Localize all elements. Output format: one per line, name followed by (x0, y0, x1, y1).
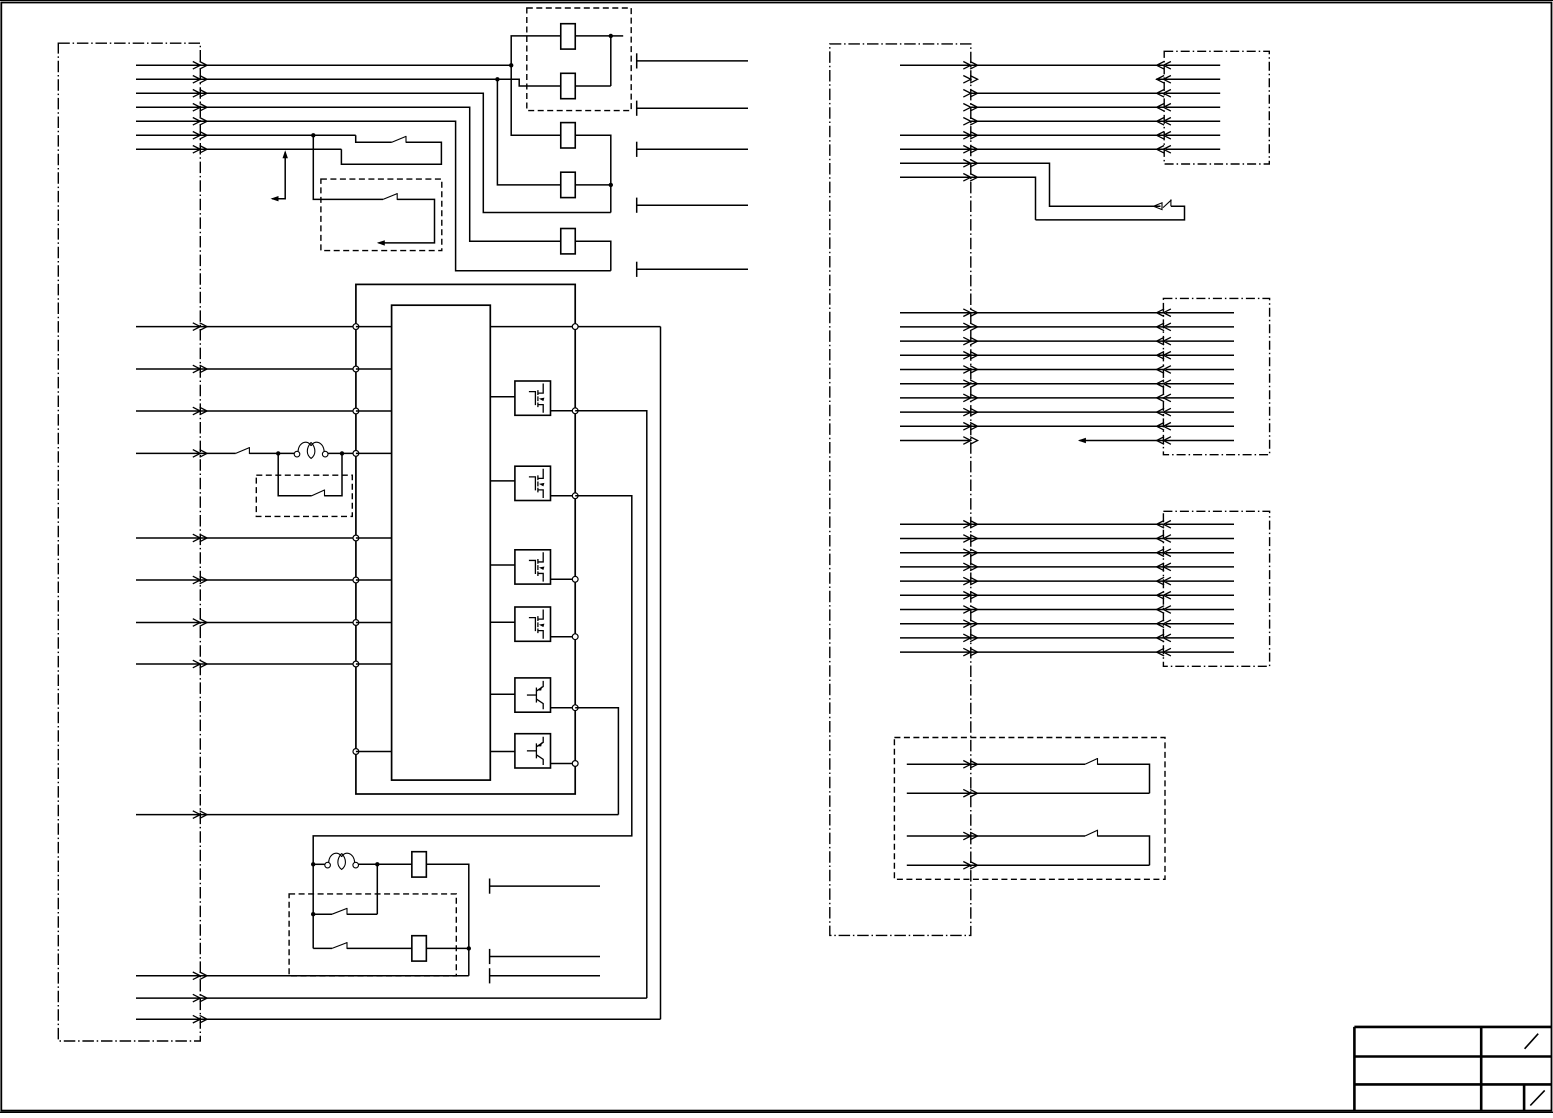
wire U1 to mosfet Q1 (490, 396, 515, 398)
switch S6 (332, 943, 347, 949)
wire G3-3 stub (1166, 552, 1235, 554)
wire top output down to W13 (660, 327, 662, 1020)
wire U1 to mosfet Q3 (490, 564, 515, 566)
component box P2 (dash-dot) (1163, 298, 1269, 454)
arrow G2-5 in (1157, 366, 1171, 374)
arrow G2-2 out (963, 323, 977, 331)
arrow G3-3 in (1157, 549, 1171, 557)
connector X1 (left, dash-dot box) (58, 43, 200, 1041)
wire G2-9 left (900, 425, 971, 427)
pin circle mosfet Q1 output (572, 408, 578, 414)
arrow G1-1 in (1157, 62, 1171, 70)
wire relay vertical (312, 864, 314, 948)
pin circle input 4 (353, 451, 359, 457)
wire module input 8 (136, 663, 356, 665)
wire G2-7 left (900, 397, 971, 399)
wire W4 (136, 107, 561, 241)
arrow G1-8 out (963, 160, 977, 168)
wire S4 bypass left (278, 453, 312, 495)
arrow G3-2 out (963, 535, 977, 543)
wire G2-1 right (971, 312, 1164, 314)
wire W9 (136, 814, 618, 816)
wire G4-4 right (971, 864, 1150, 866)
arrow G1-4 in (1157, 104, 1171, 112)
wire G3-3 right (971, 552, 1164, 554)
wire G3-9 left (900, 637, 971, 639)
arrow G3-5 out (963, 577, 977, 585)
fuse F4 (561, 172, 576, 197)
wire W2 (136, 78, 497, 80)
wire G2-5 stub (1166, 369, 1235, 371)
wire G1-4 stub (1166, 106, 1221, 108)
pin circle input 8 (353, 661, 359, 667)
node F3/F4 output junction (609, 183, 613, 187)
arrow G1-3 out (963, 90, 977, 98)
wire S3 to coil (249, 452, 294, 454)
arrow G1-4 out (963, 104, 977, 112)
arrow W2 (193, 76, 207, 84)
wire G1-8 loop (971, 163, 1161, 206)
wire G3-7 right (971, 609, 1164, 611)
wire G4-1 left (907, 763, 971, 765)
arrowhead W7 tap (271, 196, 279, 201)
wire W5 (136, 121, 611, 270)
wire G3-9 right (971, 637, 1164, 639)
wire G2-2 left (900, 326, 971, 328)
arrow G3-4 in (1157, 563, 1171, 571)
node coil output (375, 862, 379, 866)
sheet bottom edge (0, 1111, 1553, 1113)
wire G3-6 stub (1166, 594, 1235, 596)
switch S1 (392, 136, 406, 142)
arrow G2-3 in (1157, 337, 1171, 345)
wire module input 1 (136, 326, 356, 328)
fuse F5 (561, 229, 576, 254)
wire G2-9 stub (1166, 425, 1235, 427)
wire G2-8 left (900, 411, 971, 413)
arrow G1-7 out (963, 146, 977, 154)
pin circle input 7 (353, 620, 359, 626)
wire G3-6 right (971, 594, 1164, 596)
arrow input 5 (193, 534, 207, 542)
sheet top edge (0, 0, 1553, 2)
arrow G4-3 (963, 832, 977, 840)
arrow input 3 (193, 407, 207, 415)
wire G1-7 right (971, 148, 1164, 150)
wire G1-6 stub (1166, 134, 1221, 136)
arrow input 8 (193, 660, 207, 668)
wire S4 bypass right (325, 453, 343, 495)
wire G1-1 right (971, 64, 1164, 66)
wire W10 (136, 975, 469, 977)
transistor Q6 (515, 734, 551, 768)
wire G2-1 stub (1166, 312, 1235, 314)
wire G3-4 left (900, 566, 971, 568)
pin circle top output (572, 324, 578, 330)
wire S6 left lead (313, 947, 332, 949)
pin circle input 1 (353, 324, 359, 330)
wire G1-9 loop (971, 177, 1036, 220)
wire G1-8 left (900, 162, 971, 164)
wire G1-2 stub (1156, 78, 1220, 80)
mosfet Q2 (515, 466, 551, 500)
wire G3-1 right (971, 523, 1164, 525)
wire G3-7 stub (1166, 609, 1235, 611)
arrow input 4 (193, 450, 207, 458)
fuse F1 (561, 24, 576, 49)
wire mosfet Q1 output (551, 410, 576, 412)
arrow G1-5 out (963, 118, 977, 126)
wire module input 3 (136, 410, 356, 412)
component box P3 (dash-dot) (1163, 511, 1269, 666)
wire G1-6 left (900, 134, 971, 136)
wire S5 right lead (347, 913, 377, 915)
wire G1-1 left (900, 64, 971, 66)
wire W7 tap down (272, 152, 285, 199)
wire pin 4 to U1 (356, 452, 392, 454)
arrowhead G2-10 (1078, 438, 1086, 443)
arrow W1 (193, 62, 207, 70)
arrow G1-6 out (963, 132, 977, 140)
title block slash 2 (1530, 1090, 1544, 1105)
arrow G3-7 out (963, 606, 977, 614)
wire U1 to mosfet Q4 (490, 621, 515, 623)
terminal X10 (636, 53, 638, 68)
node W2 junction (495, 77, 499, 81)
wire G3-8 stub (1166, 623, 1235, 625)
arrow W3 (193, 90, 207, 98)
title block (1354, 1027, 1551, 1111)
wire Q5 output down to W10 (575, 708, 618, 815)
wire G2-1 left (900, 312, 971, 314)
wire S7 contact (1036, 206, 1185, 220)
wire coil right lead (359, 863, 412, 865)
arrow G1-9 out (963, 174, 977, 182)
wire G3-1 stub (1166, 523, 1235, 525)
arrow G1-5 in (1157, 118, 1171, 126)
wire Q2 output down to relay feed (313, 496, 632, 865)
wire module input 6 (136, 579, 356, 581)
wire G1-4 right (971, 106, 1164, 108)
arrow G1-2 in (1157, 76, 1171, 84)
wire G2-8 right (971, 411, 1164, 413)
node S5 left (311, 912, 315, 916)
arrow G4-2 (963, 789, 977, 797)
wire S5 tap (376, 864, 378, 914)
transistor Q5 (515, 678, 551, 712)
pin circle mosfet Q2 output (572, 493, 578, 499)
terminal X13 (636, 198, 638, 213)
arrow G2-4 out (963, 352, 977, 360)
wire G4-1 to switch S8 (971, 763, 1085, 765)
wire G2-6 left (900, 383, 971, 385)
wire W13 (136, 1018, 661, 1020)
arrow G1-7 in (1157, 146, 1171, 154)
wire G2-6 stub (1166, 383, 1235, 385)
wire F2 output (575, 85, 611, 87)
wire S9 contact down (1098, 836, 1150, 865)
wire R1 output (427, 864, 469, 976)
arrow input 2 (193, 365, 207, 373)
terminal X16 (489, 949, 491, 964)
node R2 output (467, 946, 471, 950)
node coil left (276, 451, 280, 455)
wire G2-10 return (1080, 440, 1235, 442)
wire G2-4 left (900, 354, 971, 356)
node coil right (340, 451, 344, 455)
arrow G2-8 out (963, 408, 977, 416)
wire module input 7 (136, 622, 356, 624)
arrow G2-4 in (1157, 352, 1171, 360)
wire W7 (136, 148, 341, 150)
wire F4 output (575, 184, 611, 186)
pin circle mosfet Q4 output (572, 634, 578, 640)
arrow G4-1 (963, 761, 977, 769)
wire G1-6 right (971, 134, 1164, 136)
fuse F3 (561, 123, 576, 148)
mosfet Q1 (515, 381, 551, 415)
wire W3 (136, 93, 611, 212)
arrow G2-1 in (1157, 309, 1171, 317)
wire G2-2 right (971, 326, 1164, 328)
resistor R1 (412, 852, 427, 877)
wire W2 to fuse F2 (497, 79, 560, 86)
wire G2-3 right (971, 340, 1164, 342)
wire G1-7 left (900, 148, 971, 150)
wire module input 2 (136, 368, 356, 370)
wire U1 top output (490, 326, 660, 328)
wire G2-6 right (971, 383, 1164, 385)
wire G1-3 stub (1166, 92, 1221, 94)
wire G4-3 left (907, 835, 971, 837)
arrow G2-3 out (963, 337, 977, 345)
terminal X17 (489, 968, 491, 983)
arrow W4 (193, 104, 207, 112)
wire pin 6 to U1 (356, 579, 392, 581)
switch S9 (1085, 830, 1098, 836)
arrow G2-10 in (1157, 437, 1171, 445)
wire G3-5 right (971, 580, 1164, 582)
wire G1-7 stub (1166, 148, 1221, 150)
wire pin 5 to U1 (356, 537, 392, 539)
arrow G3-2 in (1157, 535, 1171, 543)
wire G4-3 to switch S9 (971, 835, 1085, 837)
wire W6 to switch S1 (356, 135, 392, 142)
wire F3 output (575, 135, 611, 212)
wire pin 1 to U1 (356, 326, 392, 328)
wire mosfet Q3 output (551, 578, 576, 580)
connector X2 (right, dash-dot box) (830, 44, 971, 936)
arrow input 1 (193, 323, 207, 331)
arrow G3-3 out (963, 549, 977, 557)
arrow G3-9 in (1157, 634, 1171, 642)
arrow G2-6 out (963, 380, 977, 388)
wire G3-5 stub (1166, 580, 1235, 582)
arrow G2-7 in (1157, 394, 1171, 402)
wire G3-4 right (971, 566, 1164, 568)
IC U1 (392, 305, 491, 780)
wire W1 to fuse F1 (511, 36, 561, 65)
wire G1-5 right (971, 120, 1164, 122)
wire G3-9 stub (1166, 637, 1235, 639)
arrow G2-6 in (1157, 380, 1171, 388)
wire F1 output (575, 35, 611, 37)
switch S5 (332, 908, 347, 914)
wire G3-8 right (971, 623, 1164, 625)
arrow W9 (193, 811, 207, 819)
wire G1-1 stub (1166, 64, 1221, 66)
wire pin 3 to U1 (356, 410, 392, 412)
wire W2 to fuse F4 (497, 79, 560, 185)
component box P1 (dash-dot) (1164, 51, 1269, 164)
wire G2-3 stub (1166, 340, 1235, 342)
wire G2-2 stub (1166, 326, 1235, 328)
wire transistor Q6 output (551, 763, 576, 765)
wire G2-10 left (900, 440, 971, 442)
node W1-F1/F3 junction (509, 63, 513, 67)
pin circle input 6 (353, 577, 359, 583)
pin circle input 2 (353, 366, 359, 372)
wire pin 8 to U1 (356, 663, 392, 665)
wire G2-7 stub (1166, 397, 1235, 399)
arrow G2-1 out (963, 309, 977, 317)
module A1 boundary (356, 284, 575, 794)
wire module input 5 (136, 537, 356, 539)
wire R2 output (427, 947, 469, 949)
arrow G3-6 out (963, 592, 977, 600)
arrow G3-5 in (1157, 577, 1171, 585)
arrow G2-9 out (963, 423, 977, 431)
terminal X11 (636, 101, 638, 116)
switch S4 (312, 490, 325, 496)
wire W6 (136, 134, 356, 136)
arrow G3-8 in (1157, 620, 1171, 628)
coil L2 (325, 862, 331, 868)
wire Q1 output down to W12 (575, 411, 647, 998)
wire G2-4 stub (1166, 354, 1235, 356)
wire S8 contact down (1098, 764, 1150, 793)
wire G3-1 left (900, 523, 971, 525)
arrow G3-1 in (1157, 521, 1171, 529)
relay box K3 (dashed) (289, 894, 456, 976)
pin circle input 3 (353, 408, 359, 414)
wire G1-9 left (900, 176, 971, 178)
wire F1-F2 link (610, 36, 612, 86)
fuse F2 (561, 73, 576, 98)
arrow G2-10 out (963, 437, 977, 445)
fuse box (dashed) around F1 F2 (527, 8, 631, 111)
arrow W6 (193, 132, 207, 140)
arrow G2-8 in (1157, 408, 1171, 416)
coil L1 (294, 451, 300, 457)
arrow W10 (193, 972, 207, 980)
arrow W12 (193, 994, 207, 1002)
arrow G3-9 out (963, 634, 977, 642)
wire G3-10 left (900, 651, 971, 653)
wire G2-8 stub (1166, 411, 1235, 413)
wire U1 to mosfet Q2 (490, 480, 515, 482)
arrow G1-2 out (963, 76, 977, 84)
wire G3-5 left (900, 580, 971, 582)
wire G4-2 left (907, 792, 971, 794)
switch S2 (383, 194, 397, 200)
arrow G3-6 in (1157, 592, 1171, 600)
pin circle transistor Q6 output (572, 761, 578, 767)
arrow W5 (193, 118, 207, 126)
wire U1 to transistor Q5 (490, 693, 515, 695)
arrow G3-10 out (963, 648, 977, 656)
wire G3-10 right (971, 651, 1164, 653)
node relay coil left (311, 862, 315, 866)
wire pin 9 to U1 (356, 751, 392, 753)
arrow G2-2 in (1157, 323, 1171, 331)
wire G3-6 left (900, 594, 971, 596)
node W6 junction (311, 133, 315, 137)
title block slash 1 (1525, 1034, 1539, 1049)
wire S1 contact to W7 (341, 142, 441, 164)
wire G3-2 right (971, 538, 1164, 540)
mosfet Q4 (515, 607, 551, 641)
wire F5 output (575, 241, 611, 271)
arrow G3-1 out (963, 521, 977, 529)
arrow W13 (193, 1015, 207, 1023)
wire coil left lead (313, 863, 325, 865)
wire transistor Q5 output (551, 707, 576, 709)
arrow G3-7 in (1157, 606, 1171, 614)
relay box K2 (dashed) (256, 475, 352, 516)
terminal X15 (489, 879, 491, 894)
wire W1 (136, 64, 511, 66)
arrow G2-7 out (963, 394, 977, 402)
terminal X12 (636, 142, 638, 157)
arrow G2-5 out (963, 366, 977, 374)
wire G4-2 right (971, 792, 1150, 794)
wire G1-5 stub (1166, 120, 1221, 122)
wire S6 right lead (347, 947, 411, 949)
wire G3-8 left (900, 623, 971, 625)
wire S2 contact (379, 199, 435, 243)
relay box K4 (dashed) (894, 738, 1165, 880)
terminal X14 (636, 262, 638, 277)
relay box K1 (dashed) (321, 179, 442, 251)
wire G3-2 stub (1166, 538, 1235, 540)
wire module input 4 (136, 452, 236, 454)
mosfet Q3 (515, 550, 551, 584)
switch S7 (1163, 200, 1172, 208)
switch S8 (1085, 759, 1098, 765)
wire G3-4 stub (1166, 566, 1235, 568)
arrow input 6 (193, 576, 207, 584)
pin circle transistor Q5 output (572, 705, 578, 711)
resistor R2 (412, 936, 427, 961)
wire pin 7 to U1 (356, 622, 392, 624)
arrow G4-4 (963, 862, 977, 870)
wire W6 branch to switch S2 (313, 135, 383, 199)
wire G2-5 left (900, 369, 971, 371)
wire G3-2 left (900, 538, 971, 540)
arrow G2-9 in (1157, 423, 1171, 431)
arrow input 7 (193, 619, 207, 627)
wire mosfet Q4 output (551, 636, 576, 638)
wire S5 left lead (313, 913, 332, 915)
arrow G3-10 in (1157, 648, 1171, 656)
wire G3-3 left (900, 552, 971, 554)
wire G2-4 right (971, 354, 1164, 356)
pin circle mosfet Q3 output (572, 576, 578, 582)
wire F1 stub (611, 35, 623, 37)
node F1 output (609, 34, 613, 38)
arrow G1-3 in (1157, 90, 1171, 98)
